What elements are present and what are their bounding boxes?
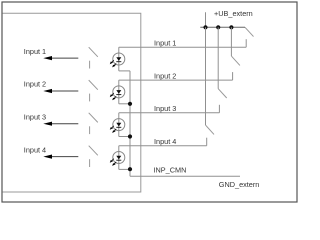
svg-text:+UB_extern: +UB_extern <box>214 9 253 18</box>
svg-text:GND_extern: GND_extern <box>219 180 260 189</box>
svg-text:Input 4: Input 4 <box>24 145 46 154</box>
svg-text:Input 3: Input 3 <box>154 104 176 113</box>
svg-text:Input 1: Input 1 <box>154 39 176 48</box>
svg-text:Input 2: Input 2 <box>24 80 46 89</box>
svg-text:INP_CMN: INP_CMN <box>154 165 187 174</box>
svg-text:Input 4: Input 4 <box>154 137 176 146</box>
svg-text:Input 3: Input 3 <box>24 112 46 121</box>
svg-text:Input 1: Input 1 <box>24 47 46 56</box>
svg-text:Input 2: Input 2 <box>154 72 176 81</box>
